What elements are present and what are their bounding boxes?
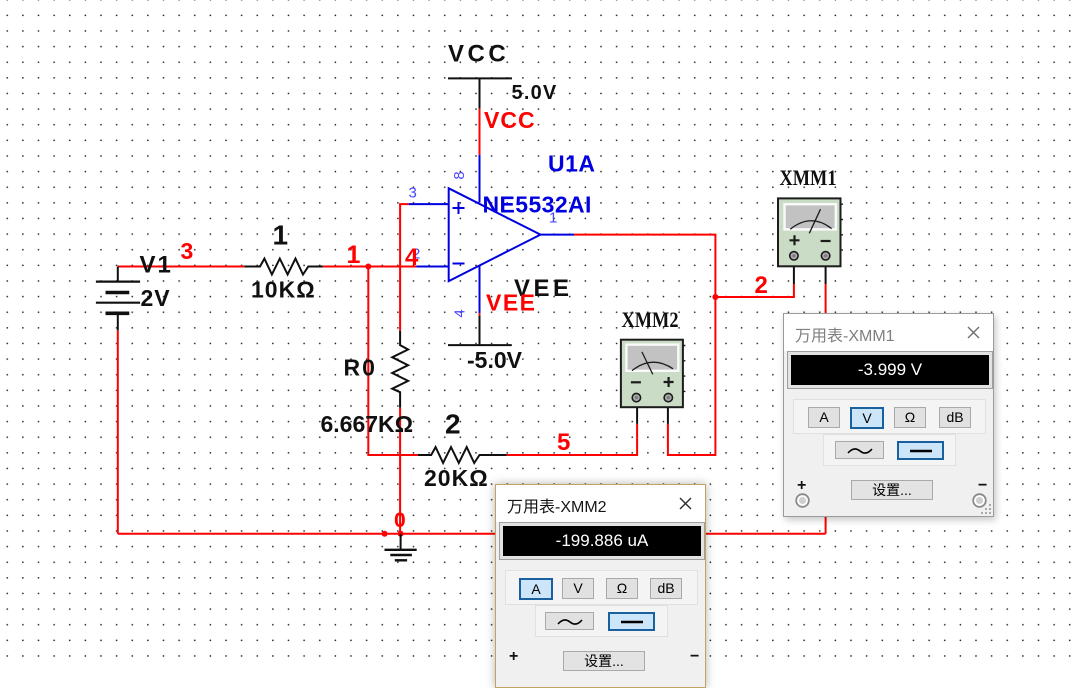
wire XMM1 plus black lead [793, 260, 795, 284]
wire blue opamp output stub [541, 234, 575, 236]
wire net2 junction to XMM1 plus [715, 284, 794, 297]
svg-text:2: 2 [445, 409, 461, 440]
svg-text:NE5532AI: NE5532AI [483, 192, 592, 218]
junction ground rail left [382, 531, 388, 537]
svg-text:8: 8 [451, 171, 468, 179]
wire XMM1 minus lead down to ground rail [825, 284, 827, 534]
wire blue inverting input stub [416, 266, 448, 268]
svg-text:VCC: VCC [484, 107, 536, 133]
wire VCC stem blue pin8 [479, 155, 481, 203]
dialog XMM2 [495, 484, 706, 688]
op-amp minus input mark [453, 263, 465, 265]
wire net1 R1 to junction to opamp [323, 266, 417, 268]
svg-text:20KΩ: 20KΩ [424, 465, 489, 491]
svg-text:4: 4 [405, 244, 419, 271]
op-amp plus input mark [453, 202, 465, 214]
wire XMM2 plus black lead [667, 404, 669, 424]
svg-text:-5.0V: -5.0V [467, 347, 523, 373]
wire net4 horizontal red stub [399, 203, 409, 205]
wire net2 XMM2 plus lead down right and up to junction [668, 297, 716, 455]
battery V1 [96, 267, 140, 331]
svg-text:10KΩ: 10KΩ [251, 277, 316, 303]
op-amp U1A triangle [449, 188, 541, 281]
resistor R2 20K horizontal [418, 447, 507, 463]
wire net2 output to junction [574, 235, 715, 297]
VCC power symbol bar [448, 77, 512, 79]
svg-text:4: 4 [452, 309, 469, 317]
svg-text:3: 3 [181, 238, 194, 264]
svg-text:XMM2: XMM2 [622, 307, 679, 332]
svg-text:6.667KΩ: 6.667KΩ [321, 411, 414, 437]
svg-text:U1A: U1A [548, 151, 596, 177]
wire net5 R2 to XMM2 minus [507, 424, 637, 455]
ground symbol [385, 534, 417, 561]
svg-text:2V: 2V [141, 285, 171, 311]
resistor R1 10K horizontal [244, 259, 323, 275]
wire net0 V1 minus down [117, 330, 119, 534]
svg-text:2: 2 [755, 272, 768, 299]
svg-text:XMM1: XMM1 [780, 165, 837, 190]
svg-text:5: 5 [557, 429, 570, 456]
wire VCC stem red [479, 109, 481, 155]
wire XMM1 minus black lead [825, 260, 827, 284]
svg-text:1: 1 [347, 241, 361, 269]
junction node 2 [712, 294, 718, 300]
wire net4 vertical +input to R0 [399, 204, 401, 331]
svg-text:1: 1 [549, 210, 557, 227]
wire net0 R0 bottom to ground rail [399, 408, 401, 534]
junction node 1 [365, 264, 371, 270]
svg-text:0: 0 [394, 509, 406, 532]
wire blue noninverting input stub [409, 203, 449, 205]
wire net1 feedback down and right to R2 [368, 267, 418, 456]
dialog XMM1 [783, 313, 994, 517]
svg-text:R0: R0 [344, 355, 377, 381]
resistor R0 6.667K vertical [392, 331, 408, 408]
wire VEE stem black [479, 316, 481, 346]
multimeter XMM1 icon [778, 198, 843, 266]
wire net0 ground rail [118, 533, 826, 535]
svg-text:3: 3 [409, 185, 417, 202]
wire VEE stem red [479, 313, 481, 315]
multimeter XMM2 icon [621, 340, 686, 408]
svg-text:1: 1 [273, 220, 289, 251]
wire VCC stem black [479, 78, 481, 108]
svg-text:5.0V: 5.0V [512, 82, 558, 104]
svg-text:V1: V1 [140, 252, 173, 279]
svg-text:VCC: VCC [448, 41, 509, 68]
wire XMM2 minus black lead [636, 404, 638, 424]
svg-text:VEE: VEE [486, 290, 537, 316]
VEE power symbol bar [448, 344, 512, 346]
wire net3 V1 to R1 [118, 266, 245, 268]
junction ground rail at ground [398, 531, 404, 537]
wire VEE stem blue pin4 [479, 266, 481, 313]
